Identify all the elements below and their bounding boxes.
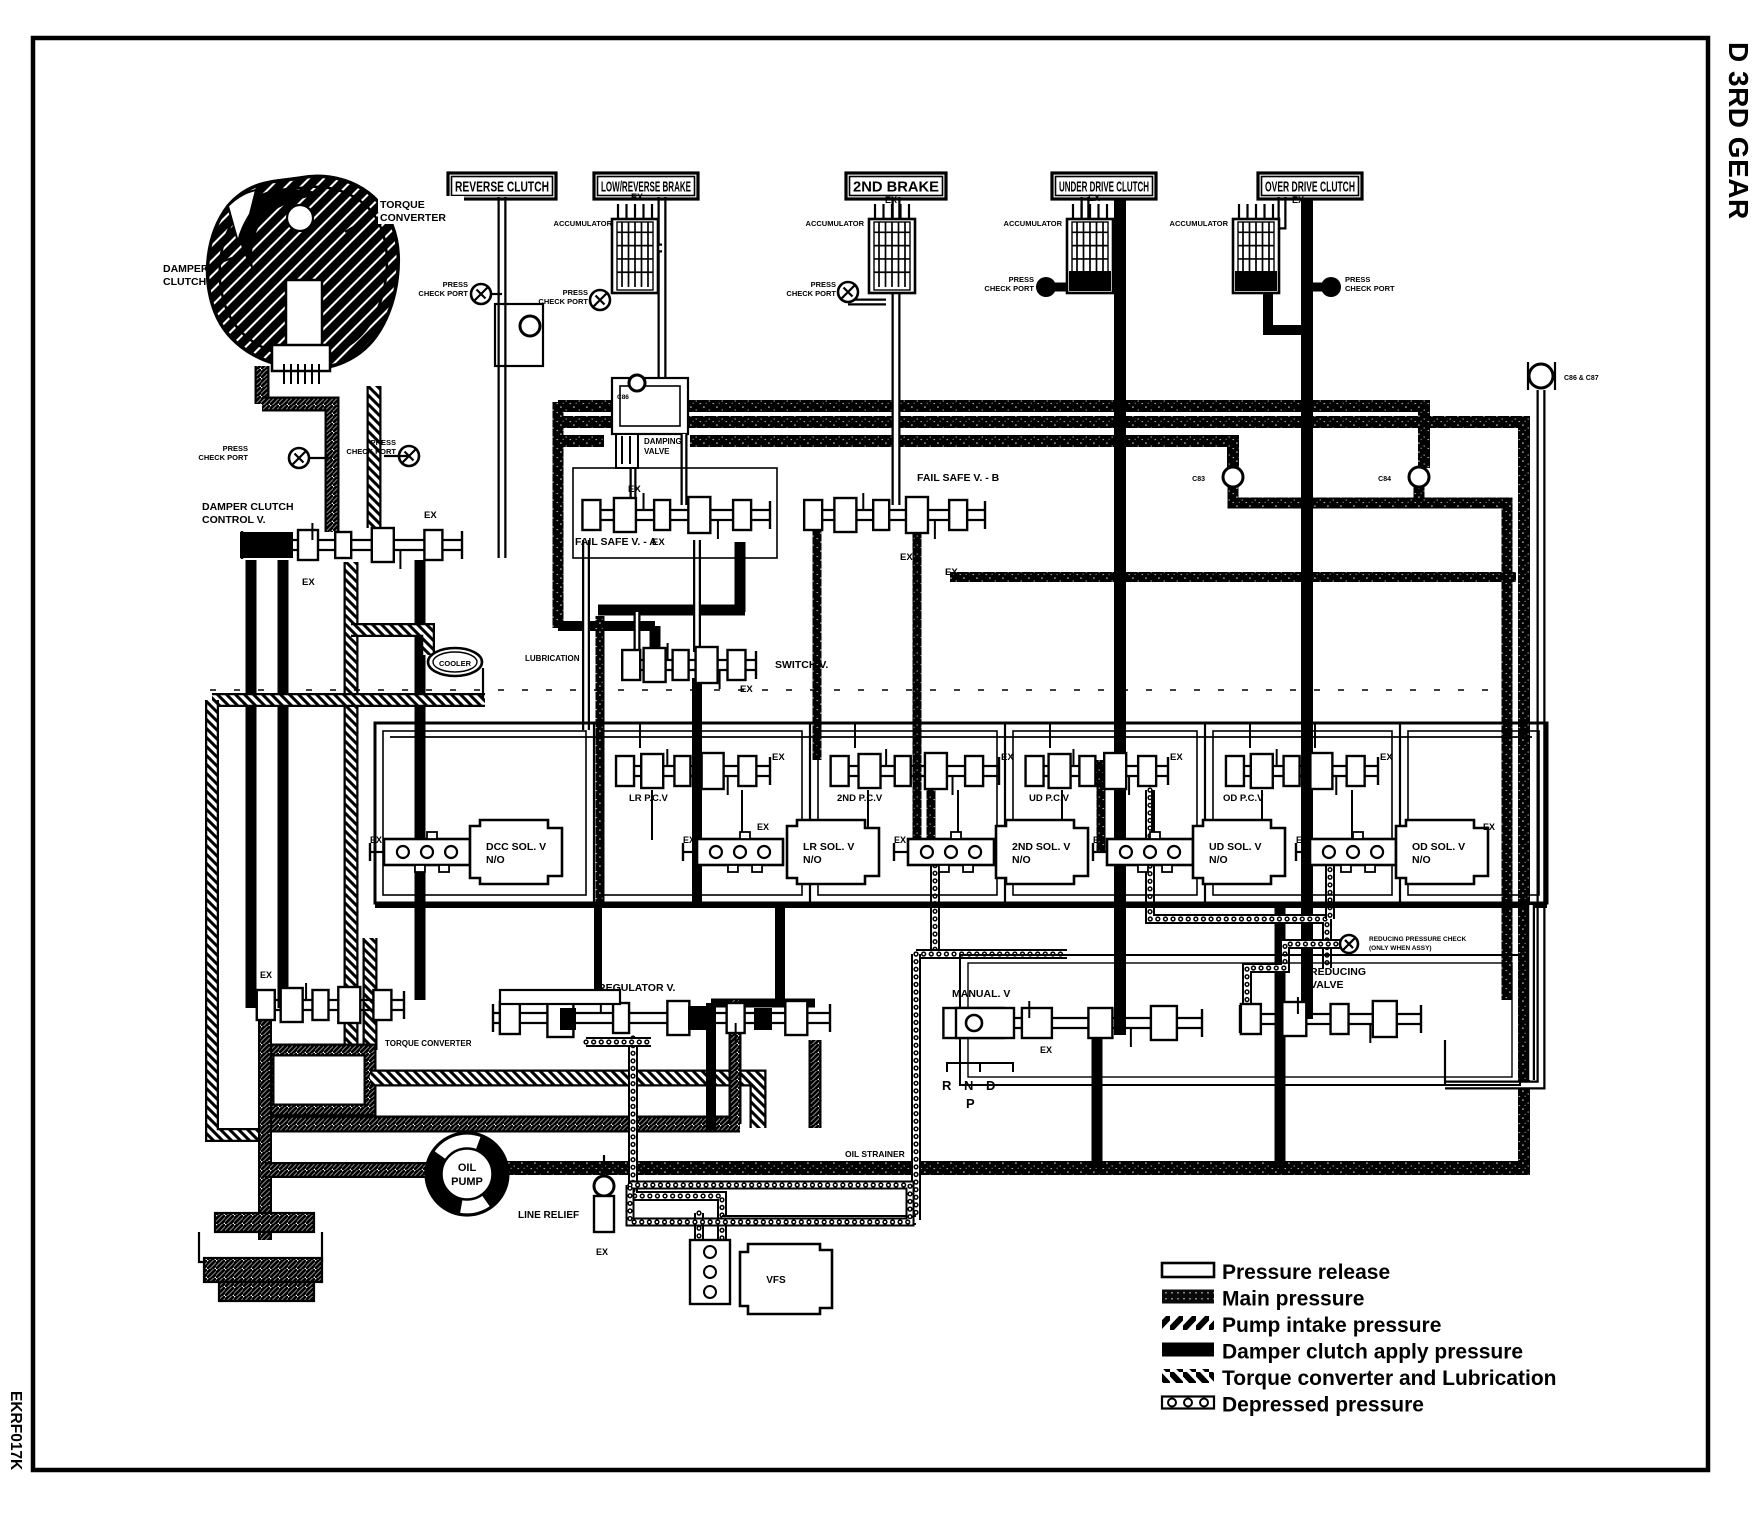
svg-text:Torque converter and Lubricati: Torque converter and Lubrication [1222, 1367, 1556, 1390]
svg-text:PRESS: PRESS [1345, 275, 1370, 284]
svg-text:EX: EX [260, 970, 272, 980]
svg-text:EX: EX [1088, 193, 1100, 203]
svg-text:EX: EX [740, 684, 753, 695]
svg-text:EKRF017K: EKRF017K [7, 1391, 24, 1471]
svg-text:N/O: N/O [803, 854, 822, 866]
svg-text:ACCUMULATOR: ACCUMULATOR [1170, 219, 1229, 228]
svg-text:OIL STRAINER: OIL STRAINER [845, 1149, 905, 1159]
svg-text:N/O: N/O [1412, 854, 1431, 866]
svg-text:REDUCING: REDUCING [1310, 966, 1366, 978]
svg-text:EX: EX [370, 835, 382, 845]
svg-text:DAMPER: DAMPER [163, 263, 209, 275]
svg-text:TORQUE CONVERTER: TORQUE CONVERTER [385, 1039, 472, 1048]
svg-text:C86 & C87: C86 & C87 [1564, 375, 1599, 382]
svg-text:UD P.C.V: UD P.C.V [1029, 793, 1070, 804]
svg-text:DAMPER CLUTCH: DAMPER CLUTCH [202, 501, 294, 513]
svg-text:MANUAL. V: MANUAL. V [952, 988, 1010, 1000]
svg-text:CHECK PORT: CHECK PORT [198, 453, 248, 462]
svg-text:EX: EX [757, 822, 769, 832]
svg-text:Pump intake pressure: Pump intake pressure [1222, 1314, 1441, 1337]
svg-text:N/O: N/O [486, 854, 505, 866]
svg-text:LOW/REVERSE BRAKE: LOW/REVERSE BRAKE [601, 179, 691, 196]
svg-text:PRESS: PRESS [223, 444, 248, 453]
svg-text:PRESS: PRESS [371, 438, 396, 447]
svg-text:EX: EX [683, 835, 695, 845]
svg-text:CHECK PORT: CHECK PORT [1345, 284, 1395, 293]
svg-text:EX: EX [945, 567, 958, 578]
svg-text:EX: EX [1040, 1045, 1052, 1055]
svg-text:N/O: N/O [1209, 854, 1228, 866]
svg-text:EX: EX [1093, 835, 1105, 845]
svg-text:Main pressure: Main pressure [1222, 1288, 1364, 1311]
svg-text:CHECK PORT: CHECK PORT [538, 297, 588, 306]
svg-text:PRESS: PRESS [443, 280, 468, 289]
svg-text:EX: EX [1380, 752, 1393, 763]
svg-text:P: P [966, 1096, 975, 1111]
svg-text:REVERSE CLUTCH: REVERSE CLUTCH [455, 179, 549, 196]
svg-text:LUBRICATION: LUBRICATION [525, 654, 580, 663]
svg-text:N: N [964, 1078, 973, 1093]
svg-text:2ND BRAKE: 2ND BRAKE [853, 179, 939, 196]
svg-text:EX: EX [596, 1247, 608, 1257]
svg-text:D: D [986, 1078, 995, 1093]
svg-text:EX: EX [894, 835, 906, 845]
svg-text:LR SOL. V: LR SOL. V [803, 841, 854, 853]
svg-text:EX: EX [652, 537, 665, 548]
svg-text:EX: EX [1170, 752, 1183, 763]
svg-text:CLUTCH: CLUTCH [163, 276, 206, 288]
svg-text:CHECK PORT: CHECK PORT [418, 289, 468, 298]
svg-text:UD SOL. V: UD SOL. V [1209, 841, 1262, 853]
svg-text:TORQUE: TORQUE [380, 199, 425, 211]
svg-text:ACCUMULATOR: ACCUMULATOR [554, 219, 613, 228]
svg-text:VALVE: VALVE [644, 447, 670, 456]
svg-text:EX: EX [1296, 835, 1308, 845]
svg-text:ACCUMULATOR: ACCUMULATOR [1004, 219, 1063, 228]
svg-text:EX: EX [302, 577, 315, 588]
svg-text:EX: EX [628, 484, 641, 495]
svg-text:PRESS: PRESS [1009, 275, 1034, 284]
svg-text:OVER DRIVE CLUTCH: OVER DRIVE CLUTCH [1265, 179, 1355, 196]
svg-text:SWITCH V.: SWITCH V. [775, 659, 828, 671]
svg-text:Damper clutch apply pressure: Damper clutch apply pressure [1222, 1341, 1523, 1364]
svg-text:EX: EX [1001, 752, 1014, 763]
svg-text:C86: C86 [617, 394, 629, 401]
svg-text:EX: EX [772, 752, 785, 763]
svg-text:EX: EX [900, 552, 913, 563]
svg-text:EX: EX [1483, 822, 1495, 832]
svg-text:DCC SOL. V: DCC SOL. V [486, 841, 546, 853]
svg-text:(ONLY WHEN ASSY): (ONLY WHEN ASSY) [1369, 945, 1432, 952]
svg-text:D 3RD GEAR: D 3RD GEAR [1723, 42, 1754, 220]
svg-text:2ND SOL. V: 2ND SOL. V [1012, 841, 1070, 853]
svg-text:VALVE: VALVE [1310, 979, 1343, 991]
svg-text:OD P.C.V: OD P.C.V [1223, 793, 1264, 804]
svg-text:EX: EX [885, 195, 897, 205]
svg-text:CHECK PORT: CHECK PORT [786, 289, 836, 298]
svg-text:EX: EX [631, 192, 643, 202]
svg-text:VFS: VFS [766, 1275, 786, 1286]
svg-text:COOLER: COOLER [439, 659, 472, 668]
svg-text:OIL: OIL [458, 1162, 477, 1174]
svg-text:Depressed pressure: Depressed pressure [1222, 1394, 1424, 1417]
svg-text:C83: C83 [1192, 476, 1205, 483]
svg-text:CHECK PORT: CHECK PORT [984, 284, 1034, 293]
svg-text:PUMP: PUMP [451, 1176, 483, 1188]
svg-text:CONVERTER: CONVERTER [380, 212, 446, 224]
svg-text:LINE RELIEF: LINE RELIEF [518, 1210, 579, 1221]
svg-text:ACCUMULATOR: ACCUMULATOR [806, 219, 865, 228]
svg-text:LR P.C.V: LR P.C.V [629, 793, 669, 804]
svg-text:Pressure release: Pressure release [1222, 1261, 1390, 1284]
svg-text:DAMPING: DAMPING [644, 437, 682, 446]
svg-text:R: R [942, 1078, 952, 1093]
svg-text:OD SOL. V: OD SOL. V [1412, 841, 1465, 853]
svg-text:PRESS: PRESS [811, 280, 836, 289]
svg-text:CONTROL V.: CONTROL V. [202, 514, 266, 526]
svg-text:PRESS: PRESS [563, 288, 588, 297]
svg-text:EX: EX [424, 510, 437, 521]
svg-text:UNDER DRIVE CLUTCH: UNDER DRIVE CLUTCH [1059, 179, 1149, 196]
svg-text:FAIL SAFE V. - A: FAIL SAFE V. - A [575, 536, 657, 548]
svg-text:2ND P.C.V: 2ND P.C.V [837, 793, 883, 804]
svg-text:N/O: N/O [1012, 854, 1031, 866]
svg-text:CHECK PORT: CHECK PORT [346, 447, 396, 456]
svg-text:FAIL SAFE V. - B: FAIL SAFE V. - B [917, 472, 1000, 484]
svg-text:C84: C84 [1378, 476, 1391, 483]
svg-text:REDUCING PRESSURE CHECK: REDUCING PRESSURE CHECK [1369, 936, 1466, 943]
svg-text:EX: EX [1292, 195, 1304, 205]
